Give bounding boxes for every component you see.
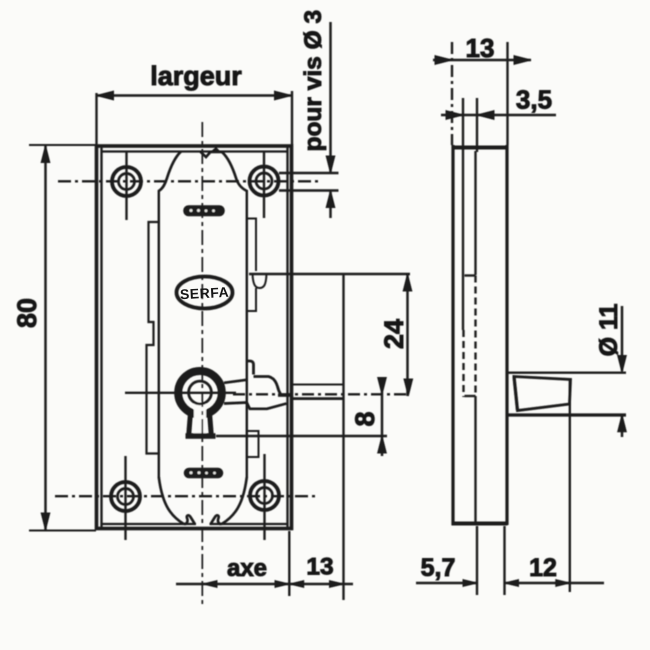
svg-text:Ø 11: Ø 11: [595, 303, 623, 356]
tongue stub above throat: [247, 361, 254, 375]
dimension 3,5 line: [441, 114, 556, 116]
screw hole bottom-left inner: [118, 489, 134, 505]
plate right edge bottom extension: [288, 531, 290, 596]
svg-text:80: 80: [12, 298, 42, 328]
diameter 11 dim line upper: [621, 306, 623, 371]
SERFA logo oval: [177, 277, 233, 309]
side view left edge: [451, 145, 454, 525]
side view inner line x475 dashed: [474, 276, 476, 395]
bottom hatched slot: [185, 469, 223, 478]
side view 13 extension dashdot left: [451, 42, 453, 145]
screw hole bottom-right outer: [250, 481, 279, 510]
pour vis tangent line bottom: [279, 189, 339, 191]
svg-text:13: 13: [466, 33, 495, 63]
keyhole bottom bar: [186, 433, 216, 439]
screw hole top-right inner: [256, 173, 272, 189]
tongue heavy merge segment: [278, 394, 293, 397]
dimension largeur line: [97, 94, 292, 96]
side view channel tick y275: [465, 274, 476, 276]
diameter 11 up arrow: [618, 415, 627, 432]
side view 13 extension right: [506, 42, 508, 145]
pour vis tangent line top: [279, 172, 339, 174]
largeur right arrow: [275, 91, 292, 100]
pour vis down arrow: [326, 156, 335, 173]
nose tip vertical extension: [569, 380, 571, 592]
svg-text:13: 13: [306, 554, 333, 581]
right side tab lower part: [247, 288, 256, 311]
12 right arrow: [556, 580, 570, 587]
pour vis leader line: [329, 22, 331, 172]
keyhole slot bottom extension line: [216, 435, 387, 437]
top holes horizontal axis dash-dot: [58, 180, 318, 182]
80 bottom extension line: [29, 530, 96, 532]
largeur left extension line: [95, 93, 97, 146]
13 top left arrow: [435, 56, 452, 65]
axe and 13 dimension line: [176, 583, 353, 585]
long vertical extension line x343.5: [342, 274, 344, 600]
8 bottom arrow: [378, 436, 387, 453]
U notch on 274 line: [253, 274, 267, 288]
side view bottom cap: [452, 522, 508, 526]
side view channel tick y396: [465, 395, 476, 397]
top centre V notch: [201, 152, 211, 157]
svg-text:3,5: 3,5: [516, 85, 552, 115]
svg-text:SERFA: SERFA: [180, 284, 230, 303]
svg-text:largeur: largeur: [150, 61, 242, 91]
front view plate inner top line: [102, 150, 288, 152]
keyhole slot left side: [189, 409, 191, 434]
svg-text:12: 12: [529, 554, 557, 582]
3,5 left arrow: [446, 111, 463, 120]
largeur right extension line: [291, 91, 293, 146]
screw hole bottom-right inner: [257, 488, 273, 504]
top hatched slot: [184, 206, 224, 216]
80 top arrow: [41, 146, 50, 163]
screw hole top-right outer: [250, 167, 279, 196]
diameter 11 down arrow: [618, 356, 627, 373]
left side tab profile: [147, 222, 159, 454]
case top-right ogee curve: [222, 152, 247, 191]
svg-text:8: 8: [350, 411, 380, 426]
tongue outside plate top edge: [292, 384, 344, 386]
side view inner line x463 dashed: [462, 330, 464, 397]
screw hole bottom-left vertical crosshair: [124, 456, 126, 540]
pour vis up arrow: [326, 191, 335, 208]
centre axis dash-dot vertical: [201, 122, 203, 608]
dimension 12 left arrow: [505, 580, 519, 587]
svg-text:24: 24: [379, 319, 409, 349]
case top-left ogee curve: [159, 152, 181, 192]
nose top extension line: [508, 371, 627, 373]
24 top arrow: [403, 274, 412, 291]
tongue inside lower edge: [224, 403, 287, 409]
keyhole slot right side: [209, 409, 211, 434]
right side tab upper: [247, 219, 256, 272]
screw hole bottom-left outer: [111, 482, 140, 511]
diameter 11 dim line lower: [621, 416, 623, 437]
tongue inside upper edge: [224, 380, 247, 383]
right side lower small tab: [247, 431, 259, 457]
side view right edge: [505, 145, 508, 525]
front view plate outer rectangle: [97, 146, 292, 529]
screw hole top-left outer: [112, 167, 141, 196]
svg-text:5,7: 5,7: [421, 554, 456, 582]
13 top right arrow: [514, 56, 531, 65]
front view plate inner border right lines (gap at tongue): [286, 147, 288, 527]
case bottom-left curve with hook: [159, 477, 195, 525]
side view bottom inner extension x477: [476, 526, 478, 595]
5,7 right arrow: [463, 580, 477, 587]
8 top arrow: [378, 378, 387, 395]
svg-text:axe: axe: [227, 555, 267, 582]
screw hole top-left vertical crosshair: [125, 152, 127, 220]
24 bottom arrow: [404, 379, 413, 396]
keyhole horizontal crosshair: [125, 392, 236, 394]
svg-text:pour vis Ø 3: pour vis Ø 3: [300, 10, 327, 152]
nose bottom thick line: [506, 413, 626, 416]
side view bottom right extension x504: [503, 526, 505, 595]
keyhole slot white cut: [194, 402, 206, 434]
front view plate inner bottom line: [102, 523, 288, 525]
keyhole boss ring: [178, 371, 222, 415]
screw hole bottom-right vertical crosshair: [263, 454, 265, 540]
tongue outside plate bottom edge: [292, 397, 344, 400]
13 bottom right arrow: [330, 581, 344, 588]
side view top cap: [452, 146, 509, 150]
80 bottom arrow: [41, 513, 50, 530]
case bottom-right curve with hook: [211, 477, 247, 525]
dimension 5,7 line: [416, 582, 477, 584]
latch nose side view: [514, 377, 571, 411]
side view inner line x463: [462, 146, 464, 330]
3,5 right arrow: [477, 111, 494, 120]
13 bottom left arrow: [290, 581, 304, 588]
bottom holes horizontal axis dash-dot: [55, 495, 319, 497]
axe right arrow: [275, 581, 289, 588]
80 top extension line: [29, 144, 96, 146]
keyhole axis dash-dot extension right: [233, 393, 410, 395]
tongue plateau and S-curve: [254, 377, 281, 395]
front view plate inner border left line: [100, 147, 102, 527]
side view inner line x475 upper: [474, 151, 476, 275]
extension line y274 with U notch: [249, 273, 410, 276]
dimension 24 line: [406, 274, 408, 396]
screw hole top-left inner: [119, 174, 135, 190]
dimension 12 line: [505, 582, 605, 584]
dimension 8 line: [381, 392, 383, 456]
case right vertical: [246, 190, 248, 478]
side view inner line x475 lower: [474, 396, 476, 524]
axe left arrow: [203, 581, 217, 588]
keyhole inner circle: [189, 381, 212, 404]
pour vis lower stub: [329, 191, 331, 219]
largeur left arrow: [97, 91, 114, 100]
dimension 13 top line: [433, 59, 531, 61]
3,5 extension lines: [463, 98, 477, 152]
dimension 80 line: [44, 146, 46, 531]
case left vertical: [158, 190, 160, 478]
screw hole top-right vertical crosshair: [263, 151, 265, 218]
nose left edge thick: [514, 377, 518, 411]
